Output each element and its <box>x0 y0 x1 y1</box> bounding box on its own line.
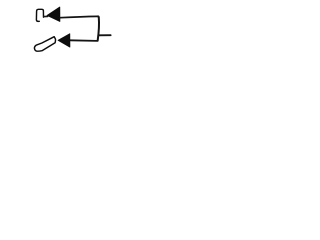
diode D1 cathode bar <box>36 9 43 21</box>
wire D1 anode to right (top net) <box>60 16 98 17</box>
diode D1 triangle <box>47 7 60 22</box>
wire D1 bar to anode tip <box>44 15 48 17</box>
wire bottom net to D2 anode <box>70 39 98 42</box>
wire vertical right net <box>98 16 99 40</box>
diode D2 triangle <box>58 34 70 47</box>
wire stub to right (net out) <box>98 34 110 36</box>
diode D2 cathode bar <box>34 37 55 52</box>
